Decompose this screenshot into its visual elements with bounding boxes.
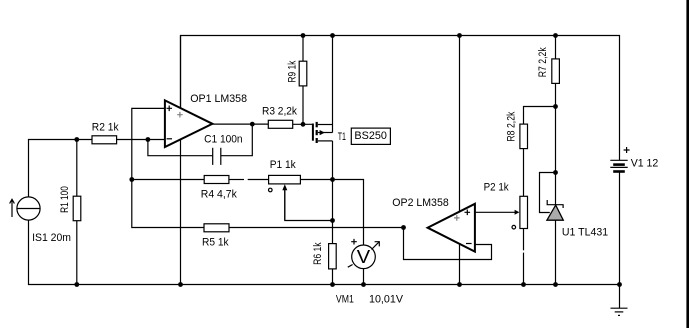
wire R8 top to R7 R8 junction [524, 107, 556, 125]
op-amp OP2 [428, 204, 475, 252]
svg-text:C1 100n: C1 100n [204, 134, 243, 146]
node ground rail OP1 supply junction [178, 282, 183, 287]
wire OP2 feedback loop [404, 228, 492, 260]
wire P2 bottom lower segment [523, 253, 525, 285]
current source IS1 [10, 197, 40, 220]
wire IS1 top to R2 [29, 140, 93, 198]
node ground rail P2 junction [521, 282, 526, 287]
svg-text:R3 2,2k: R3 2,2k [262, 105, 297, 117]
wire OP2 supply line [459, 36, 461, 285]
resistor R5 [204, 224, 229, 232]
svg-text:P1 1k: P1 1k [270, 159, 296, 171]
resistor R3 [268, 120, 292, 128]
wire OP2 noninverting input to P2 wiper [475, 211, 517, 213]
wire R9 top lead [302, 36, 304, 62]
wire R7 bottom to TL431 cathode [555, 83, 557, 205]
resistor R6 [329, 244, 337, 269]
node TL431 ref junction [553, 170, 558, 175]
wire R1 top lead [76, 140, 78, 197]
svg-text:R9 1k: R9 1k [287, 60, 299, 82]
node ground rail R6 junction [330, 282, 335, 287]
node ground rail TL431 junction [553, 282, 558, 287]
svg-text:P2 1k: P2 1k [484, 182, 510, 194]
svg-text:R8 2,2k: R8 2,2k [505, 111, 517, 141]
svg-text:T1: T1 [338, 131, 346, 143]
wire R6 bottom lead [332, 269, 334, 285]
wire R1 bottom lead [76, 221, 78, 285]
wire OP1 output to R3 [212, 123, 268, 125]
node ground rail OP2 supply junction [457, 282, 462, 287]
svg-text:OP2 LM358: OP2 LM358 [392, 197, 448, 209]
wire R9 bottom lead [302, 86, 304, 124]
voltmeter VM1 [348, 239, 380, 269]
wire R2 to OP1 inverting input [117, 139, 165, 141]
svg-text:BS250: BS250 [354, 130, 387, 142]
svg-text:R1 100: R1 100 [59, 186, 71, 213]
wire top positive rail [181, 36, 620, 161]
wire C1 feedback left [148, 140, 213, 156]
node ground rail VM1 junction [361, 282, 366, 287]
node top rail T1 drain junction [330, 33, 335, 38]
node R4 left junction [129, 177, 134, 182]
wire P1 right to VM1 top [300, 180, 363, 246]
wire TL431 anode to ground rail [555, 220, 557, 285]
wire R4 node to R4 [132, 179, 204, 181]
wire P1 wiper to node [285, 186, 333, 221]
op-amp OP1 [165, 100, 213, 147]
svg-text:IS1 20m: IS1 20m [32, 232, 71, 244]
wire P2 bottom upper segment [523, 229, 525, 251]
node top rail OP2 supply junction [457, 33, 462, 38]
wire R4 to P1 with hop gap [229, 179, 244, 181]
svg-text:VM1: VM1 [336, 293, 354, 305]
svg-text:R5 1k: R5 1k [202, 237, 229, 249]
node gate R9 junction [301, 122, 306, 127]
svg-text:U1 TL431: U1 TL431 [562, 226, 608, 238]
shunt regulator U1 TL431 [547, 200, 563, 220]
wire C1 feedback right [221, 124, 253, 156]
node ground rail R1 junction [74, 282, 79, 287]
node OP2 output junction [401, 225, 406, 230]
node R7 R8 junction [553, 104, 558, 109]
wire OP1 noninverting input branch [132, 108, 204, 227]
svg-text:R7 2,2k: R7 2,2k [537, 47, 549, 77]
wire R8 bottom to P2 top [523, 149, 525, 197]
wire battery bottom to ground [619, 172, 621, 308]
resistor R8 [520, 124, 528, 149]
resistor R1 [73, 196, 81, 221]
wire TL431 reference bracket [540, 173, 556, 213]
ground [611, 308, 628, 315]
wire hop continuation to P1 [248, 179, 269, 181]
node top rail R9 junction [301, 33, 306, 38]
wire OP1 supply line [180, 36, 182, 285]
svg-text:10,01V: 10,01V [369, 293, 404, 305]
resistor R9 [299, 61, 307, 86]
capacitor C1 [213, 148, 221, 165]
wire T1 source down to output node [332, 141, 334, 244]
svg-text:V: V [357, 246, 371, 267]
svg-text:R4 4,7k: R4 4,7k [201, 189, 237, 201]
wire bottom ground rail [29, 220, 620, 285]
node P1 right junction [330, 177, 335, 182]
node top rail R7 junction [553, 33, 558, 38]
battery V1 [610, 147, 629, 172]
svg-text:OP1 LM358: OP1 LM358 [190, 93, 247, 105]
potentiometer P2 [512, 196, 528, 229]
svg-text:V1 12: V1 12 [631, 158, 659, 170]
potentiometer P1 [269, 175, 301, 220]
node OP1 output junction [250, 122, 255, 127]
node R1 top junction [74, 137, 79, 142]
node P1 wiper junction [330, 218, 335, 223]
svg-text:R2 1k: R2 1k [92, 121, 119, 133]
window border right edge [686, 0, 689, 328]
resistor R2 [92, 136, 117, 144]
wire R7 top lead [555, 36, 557, 59]
node OP1 inverting input junction [146, 137, 151, 142]
wire R5 to OP2 output node [229, 227, 404, 229]
label BS250 box [351, 128, 390, 144]
resistor R7 [552, 59, 560, 84]
transistor T1 [313, 122, 333, 143]
wire VM1 bottom lead [363, 269, 365, 285]
resistor R4 [204, 176, 229, 184]
svg-text:R6 1k: R6 1k [312, 242, 324, 265]
node ground rail battery junction [617, 282, 622, 287]
wire R3 to gate node [293, 123, 313, 125]
wire T1 drain connector to rail [332, 36, 334, 133]
